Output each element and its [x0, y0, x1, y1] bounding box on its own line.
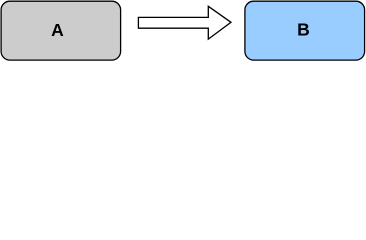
svg-text:B: B — [297, 20, 310, 40]
svg-text:A: A — [51, 20, 64, 40]
